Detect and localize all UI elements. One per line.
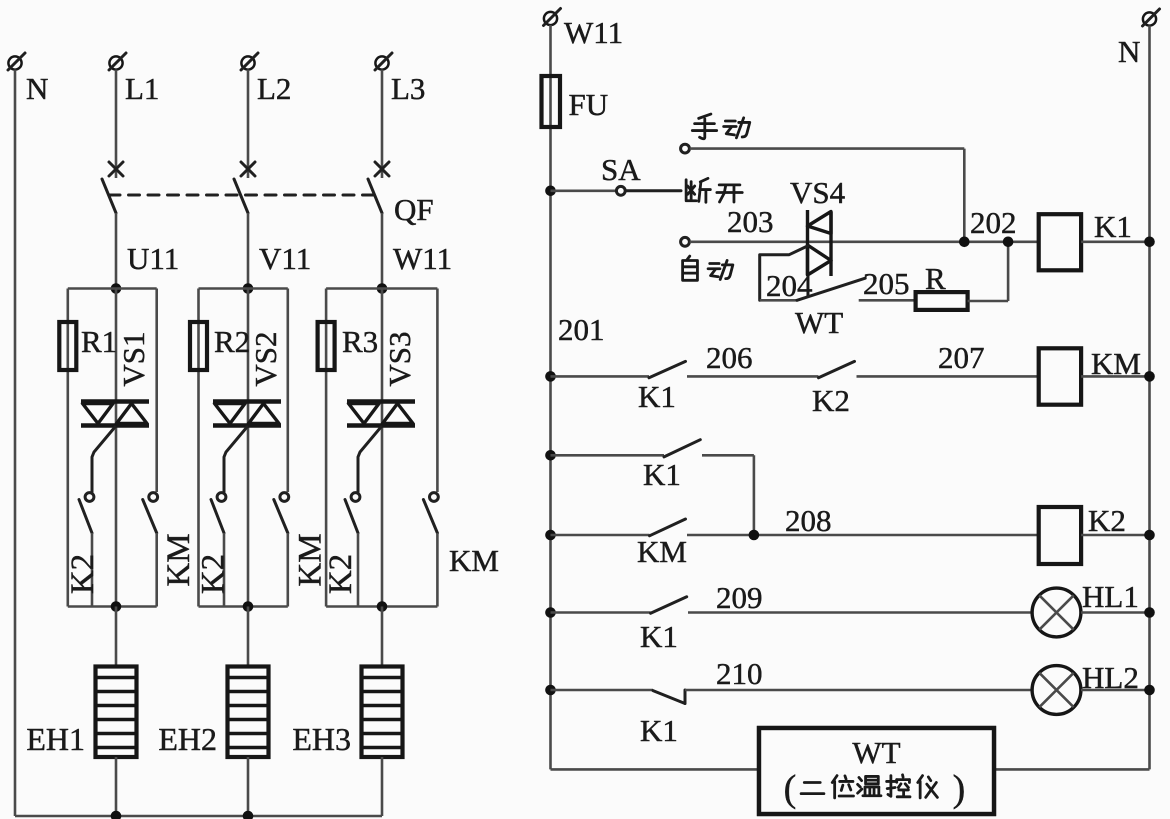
wire V11 node: [247, 213, 250, 289]
wire row 208 segment 1: [551, 534, 650, 537]
resistor R: [916, 292, 968, 310]
wire L3 to breaker: [381, 70, 384, 179]
junction row 210 left bus: [545, 685, 556, 696]
temperature controller WT box: [759, 728, 994, 814]
svg-text:203: 203: [727, 204, 774, 239]
terminal L2: [241, 56, 254, 69]
wire branch 3 right (KM) leg upper: [436, 289, 439, 493]
svg-text:208: 208: [785, 503, 832, 538]
wire branch 3 left (resistor) leg: [325, 289, 328, 607]
svg-text:R: R: [925, 261, 946, 296]
wire R to node 202: [968, 300, 1009, 303]
junction K1 row N bus: [1144, 237, 1155, 248]
wire KM coil to N bus: [1081, 375, 1149, 378]
triac VS1: [81, 399, 149, 404]
junction U11: [111, 283, 122, 294]
triac VS2: [213, 399, 281, 404]
junction V11: [243, 283, 254, 294]
breaker QF pole blade 1: [102, 179, 116, 213]
wire triac VS3 gate: [358, 427, 381, 492]
wire triac VS2 gate: [224, 427, 247, 492]
wire branch 1 left (resistor) leg: [67, 289, 70, 607]
svg-text:W11: W11: [393, 241, 452, 276]
contact KM branch 1: [149, 493, 158, 502]
svg-text:EH2: EH2: [158, 721, 217, 757]
wire row 206 segment 1: [551, 375, 650, 378]
junction KM row N bus: [1144, 371, 1155, 382]
svg-text:L1: L1: [125, 71, 159, 106]
junction K2 row N bus: [1144, 530, 1155, 541]
contact K1 self-hold: [664, 440, 700, 457]
svg-text:FU: FU: [569, 87, 609, 122]
breaker fixed contact x mark 3: [375, 162, 389, 176]
wire K1 coil to N bus: [1081, 241, 1149, 244]
junction branch 2 bottom: [243, 601, 254, 612]
contact KM row 208: [650, 519, 686, 536]
thermostat contact WT: [760, 299, 797, 302]
relay coil KM: [1039, 348, 1081, 404]
svg-text:L3: L3: [391, 71, 425, 106]
wire L2 to breaker: [247, 70, 250, 179]
wire branch 3 loop bottom: [326, 605, 437, 608]
svg-text:206: 206: [706, 340, 753, 375]
resistor R3: [318, 322, 335, 370]
wire L1 to breaker: [115, 70, 118, 179]
svg-text:W11: W11: [564, 15, 623, 50]
svg-text:K2: K2: [1088, 503, 1126, 538]
svg-text:K1: K1: [643, 457, 681, 492]
wire HL1 to N bus: [1081, 611, 1150, 614]
svg-text:EH3: EH3: [292, 721, 351, 757]
wire row 208 segment 2: [687, 534, 1039, 537]
svg-text:K1: K1: [638, 379, 676, 414]
svg-text:L2: L2: [257, 71, 291, 106]
wire VS4 gate: [760, 246, 808, 300]
svg-text:K1: K1: [640, 619, 678, 654]
svg-text:201: 201: [558, 312, 605, 347]
wire row 210 segment 1: [551, 689, 654, 692]
svg-text:QF: QF: [394, 192, 434, 227]
wire row 209 segment 1: [551, 611, 651, 614]
wire node 203 row to K1 coil: [690, 241, 1039, 244]
svg-text:N: N: [1118, 34, 1140, 69]
wire row 206 segment 2: [687, 375, 819, 378]
svg-text:V11: V11: [259, 241, 311, 276]
svg-text:SA: SA: [601, 152, 641, 187]
relay coil K2: [1039, 507, 1081, 564]
wire bottom neutral bus: [15, 815, 382, 818]
svg-text:K2: K2: [323, 554, 359, 594]
wire branch 2 left (resistor) leg: [197, 289, 200, 607]
svg-text:WT: WT: [852, 735, 900, 770]
selector SA label duan-kai (off): [686, 178, 710, 202]
junction self-hold row left bus: [545, 450, 556, 461]
heater EH2: [228, 667, 269, 758]
wire heater EH2 to bottom bus: [247, 757, 250, 816]
svg-text:KM: KM: [161, 533, 197, 586]
svg-text:(: (: [784, 768, 797, 810]
wire K2 coil to N bus: [1081, 534, 1149, 537]
relay coil K1: [1039, 214, 1081, 270]
svg-text:205: 205: [863, 266, 910, 301]
junction row 208 left bus: [545, 530, 556, 541]
svg-text:U11: U11: [127, 241, 179, 276]
junction W11: [377, 283, 388, 294]
selector SA auto contact: [681, 237, 690, 246]
wire branch 1 right (KM) leg upper: [155, 289, 158, 493]
resistor R2: [190, 322, 207, 370]
contact KM branch 2: [280, 493, 289, 502]
wire branch 2 to heater: [247, 607, 250, 667]
resistor R1: [59, 322, 76, 370]
fuse FU: [542, 76, 561, 127]
svg-text:K2: K2: [65, 554, 101, 594]
wire branch 1 to heater: [115, 607, 118, 667]
svg-text:VS3: VS3: [382, 331, 417, 386]
svg-text:R1: R1: [81, 324, 117, 359]
wire manual row: [690, 147, 965, 150]
breaker QF pole blade 2: [234, 179, 248, 213]
junction branch 3 bottom: [377, 601, 388, 612]
wire self-hold row: [551, 454, 665, 457]
contact K1 row 209: [651, 597, 687, 614]
wire branch 2 loop bottom: [199, 605, 288, 608]
svg-text:EH1: EH1: [26, 721, 85, 757]
svg-text:KM: KM: [449, 543, 499, 578]
breaker QF pole blade 3: [368, 179, 382, 213]
svg-text:K1: K1: [640, 713, 678, 748]
junction row 206 left bus: [545, 371, 556, 382]
junction 202/R: [1003, 237, 1014, 248]
wire heater EH1 to bottom bus: [115, 757, 118, 816]
junction row 208 self-hold: [749, 530, 760, 541]
svg-text:VS1: VS1: [116, 331, 151, 386]
terminal L3: [375, 56, 388, 69]
wire triac VS1 gate: [92, 427, 115, 492]
junction bottom bus EH1: [111, 811, 122, 819]
breaker fixed contact x mark 1: [109, 162, 123, 176]
contact KM branch 3: [430, 493, 439, 502]
triac VS4: [806, 210, 809, 275]
wire branch 2 right (KM) leg upper: [286, 289, 289, 493]
wire W11 node: [381, 213, 384, 289]
lamp HL2: [1032, 666, 1081, 715]
terminal N (right): [1143, 12, 1156, 25]
wire row 209 segment 2: [688, 611, 1032, 614]
wire branch 3 loop top: [326, 287, 437, 290]
junction HL1 row N bus: [1144, 607, 1155, 618]
wire self-hold to row 208: [702, 454, 754, 457]
wire branch 2 center (triac) leg: [247, 289, 250, 607]
contact K2 branch 2: [217, 493, 226, 502]
svg-text:K2: K2: [812, 383, 850, 418]
wire branch 3 center (triac) leg: [381, 289, 384, 607]
junction branch 1 bottom: [111, 601, 122, 612]
svg-text:VS2: VS2: [248, 331, 283, 386]
wire N left rail: [14, 70, 17, 817]
svg-text:207: 207: [938, 340, 985, 375]
junction bottom bus EH2: [243, 811, 254, 819]
wire control right bus: [1148, 26, 1151, 770]
selector SA manual contact: [681, 144, 690, 153]
wire HL2 to N bus: [1081, 689, 1150, 692]
wire branch 3 to heater: [381, 607, 384, 667]
triac VS3: [347, 399, 415, 404]
heater EH1: [96, 667, 137, 758]
svg-text:): ): [953, 768, 966, 810]
contact K2 branch 1: [85, 493, 94, 502]
contact K2 branch 3: [351, 493, 360, 502]
wire row 207 segment: [857, 375, 1039, 378]
wire row 210 segment 2: [685, 689, 1032, 692]
lamp HL1: [1032, 588, 1081, 637]
junction row 209 left bus: [545, 607, 556, 618]
svg-text:K2: K2: [196, 554, 232, 594]
junction HL2 row N bus: [1144, 685, 1155, 696]
junction manual/202: [959, 237, 970, 248]
terminal L1: [109, 56, 122, 69]
selector SA label zi-dong (auto): [683, 256, 698, 280]
terminal W11 (control): [544, 12, 557, 25]
wire branch 1 loop bottom: [68, 605, 157, 608]
svg-text:VS4: VS4: [790, 175, 846, 210]
wire branch 1 loop top: [68, 287, 157, 290]
wire U11 node: [115, 213, 118, 289]
svg-text:KM: KM: [637, 534, 687, 569]
svg-text:WT: WT: [795, 305, 843, 340]
svg-text:HL1: HL1: [1082, 579, 1139, 614]
node N terminal (left rail): [8, 56, 21, 69]
breaker fixed contact x mark 2: [241, 162, 255, 176]
wire control left bus: [549, 25, 552, 769]
wire branch 2 loop top: [199, 287, 288, 290]
heater EH3: [362, 667, 403, 758]
svg-text:R3: R3: [342, 324, 378, 359]
svg-text:209: 209: [716, 580, 763, 615]
selector SA label shou-dong (manual): [692, 114, 716, 139]
contact K2 row 206: [819, 361, 855, 377]
wire bottom row to WT controller: [551, 768, 760, 771]
contact K1 row 210 (break type): [653, 691, 685, 704]
junction SA row: [545, 186, 556, 197]
wire branch 1 center (triac) leg: [115, 289, 118, 607]
svg-text:202: 202: [970, 205, 1017, 240]
svg-text:R2: R2: [214, 324, 250, 359]
contact K1 row 206: [649, 361, 686, 377]
selector switch SA: [551, 190, 617, 193]
svg-text:K1: K1: [1094, 209, 1132, 244]
svg-text:N: N: [26, 71, 48, 106]
wire heater EH3 to bottom bus: [381, 757, 384, 816]
breaker QF linkage dashed line: [109, 194, 374, 197]
svg-text:210: 210: [716, 656, 763, 691]
